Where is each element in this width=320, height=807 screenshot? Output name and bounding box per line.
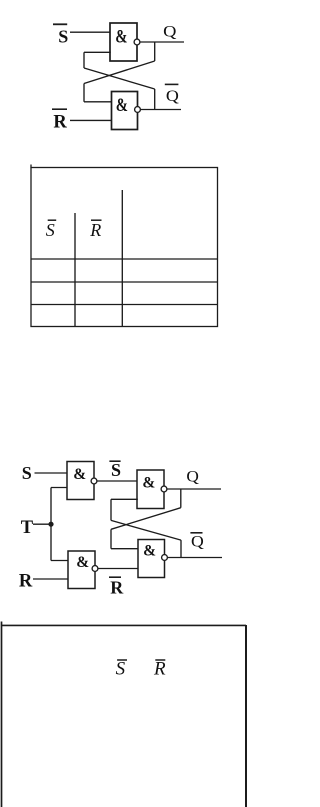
svg-text:R: R xyxy=(53,112,67,132)
table header S-bar xyxy=(46,220,56,240)
table outer border xyxy=(31,168,218,327)
svg-text:T: T xyxy=(21,518,34,538)
svg-text:&: & xyxy=(116,96,128,116)
output bubble of DD2.3 xyxy=(161,486,167,492)
wire feedback diagonal to Q-bar xyxy=(84,68,155,89)
label S-bar (node between DD2.1 and DD2.3) xyxy=(109,460,121,480)
wire Q-bar output (node Q-bar) xyxy=(141,109,182,111)
wire feedback diagonal Q to lower gate xyxy=(84,61,155,84)
wire T branch vertical xyxy=(50,488,52,561)
wire feedback diagonal to Q-bar (diagram 2) xyxy=(111,520,181,540)
wire feedback vertical to DD2.4 input xyxy=(110,529,112,548)
wire R-bar to gate DD1.2 lower input xyxy=(70,119,112,121)
table header R-bar xyxy=(89,220,101,240)
wire feedback drop from Q xyxy=(154,42,156,61)
wire S-bar to gate DD1.1 upper input xyxy=(70,31,111,33)
svg-text:S: S xyxy=(116,659,126,680)
svg-text:S: S xyxy=(46,220,55,240)
wire feedback vertical from DD1.1 input xyxy=(83,52,85,68)
svg-text:&: & xyxy=(143,543,156,560)
label R-bar (input R, diagram 1) xyxy=(52,109,67,132)
svg-text:R: R xyxy=(89,220,101,240)
wire T to junction xyxy=(33,523,51,525)
svg-text:R: R xyxy=(110,578,124,598)
nand gate DD1.2 (bottom) xyxy=(112,92,138,130)
output bubble of DD2.2 xyxy=(92,566,98,572)
svg-text:&: & xyxy=(76,554,89,571)
table corner tick xyxy=(30,165,32,168)
junction dot T xyxy=(48,522,53,527)
svg-text:&: & xyxy=(142,475,155,492)
label Q-bar (diagram 2) xyxy=(190,533,204,551)
table 2 header S-bar xyxy=(116,659,127,680)
wire feedback diagonal Q to DD2.4 xyxy=(111,508,181,530)
wire DD2.3 lower input xyxy=(111,498,138,500)
wire R to gate DD2.2 xyxy=(33,578,69,580)
table row line 2 xyxy=(31,281,218,283)
wire into DD1.2 upper input xyxy=(84,101,112,103)
wire feedback vertical to DD1.2 input xyxy=(83,84,85,102)
nand gate DD2.2 (input gate, bottom) xyxy=(68,551,95,589)
table row line 3 xyxy=(31,304,218,306)
wire T branch to DD2.1 lower input xyxy=(51,487,68,489)
svg-text:&: & xyxy=(73,466,86,483)
svg-text:S: S xyxy=(58,27,68,47)
output bubble of DD2.4 xyxy=(162,555,168,561)
wire S to gate DD2.1 xyxy=(35,472,68,474)
label S-bar (input S, diagram 1) xyxy=(53,24,68,46)
output bubble of DD1.1 xyxy=(134,39,140,45)
table 2 left border xyxy=(1,622,3,807)
wire R-bar node xyxy=(98,568,139,570)
table row line 1 xyxy=(31,258,218,260)
svg-text:R: R xyxy=(153,659,166,680)
table column divider 1 xyxy=(74,213,76,327)
svg-text:Q: Q xyxy=(163,23,177,40)
nand gate DD1.1 (top) xyxy=(110,23,137,61)
wire Q output (node Q, diagram 2) xyxy=(167,488,221,490)
nand gate DD2.4 (latch gate, bottom) xyxy=(138,540,165,578)
label R-bar (node between DD2.2 and DD2.4) xyxy=(109,577,124,597)
svg-text:Q: Q xyxy=(186,469,199,486)
table column divider 2 xyxy=(121,190,123,327)
wire feedback drop from Q (diagram 2) xyxy=(180,489,182,508)
nand gate DD2.3 (latch gate, top) xyxy=(137,470,164,509)
output bubble of DD1.2 xyxy=(135,107,141,113)
svg-text:S: S xyxy=(22,463,32,483)
wire DD1.1 lower input xyxy=(84,51,111,53)
nand gate DD2.1 (input gate, top) xyxy=(67,462,94,500)
wire T branch to DD2.2 upper input xyxy=(51,560,69,562)
label Q-bar xyxy=(165,84,180,104)
wire Q output (node Q) xyxy=(140,41,184,43)
table 2 top border xyxy=(2,624,247,626)
wire feedback rise from Q-bar wire xyxy=(154,89,156,110)
table 2 right border xyxy=(245,625,247,807)
svg-text:Q: Q xyxy=(166,88,179,105)
wire into DD2.4 upper input xyxy=(111,548,139,550)
wire Q-bar output (node Q-bar, diagram 2) xyxy=(167,557,222,559)
output bubble of DD2.1 xyxy=(91,478,97,484)
svg-text:&: & xyxy=(115,28,127,48)
table 2 header R-bar xyxy=(153,659,166,680)
svg-text:R: R xyxy=(19,571,33,591)
wire S-bar node xyxy=(97,480,138,482)
wire feedback rise from Q-bar wire (diagram 2) xyxy=(180,540,182,557)
svg-text:Q: Q xyxy=(191,534,204,551)
svg-text:S: S xyxy=(111,460,121,480)
wire feedback vertical from DD2.3 input xyxy=(110,499,112,520)
